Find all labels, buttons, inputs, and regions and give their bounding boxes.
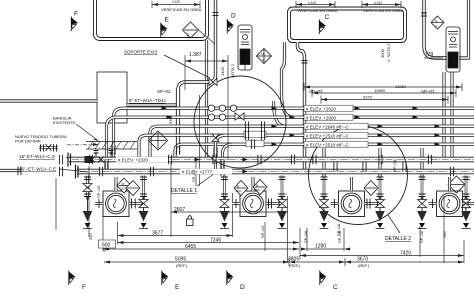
svg-text:600: 600 (102, 243, 111, 249)
svg-text:EXISTENTE: EXISTENTE (53, 120, 76, 125)
flange ticks on left row verticals (112, 145, 115, 155)
pipe row 2 ELEV +2000 with left elbow down (107, 117, 474, 170)
svg-text:¢ ELEV. +2777: ¢ ELEV. +2777 (182, 169, 212, 174)
svg-text:POR DEFINIR: POR DEFINIR (15, 139, 41, 144)
inline valve on row 2 (235, 113, 244, 120)
valve stand 3 (220, 176, 230, 229)
flanges on header 2777 (99, 167, 102, 177)
svg-text:346: 346 (442, 231, 447, 238)
instrument assembly 1 (top, with black body) (238, 25, 252, 70)
svg-text:202: 202 (236, 189, 241, 193)
pump box 4 (429, 177, 474, 217)
diamonds above pump 1 (117, 178, 131, 193)
flange on riser 215 (213, 13, 219, 16)
svg-text:N: N (435, 19, 437, 23)
valve V2 (139, 200, 148, 208)
pipe: riser from tank B left-bottom (282, 42, 285, 95)
leader detalle 1 (197, 168, 222, 186)
diamond tag right bottom (448, 176, 465, 193)
pipe: elbow into row 2 (282, 93, 294, 117)
svg-text:9375: 9375 (363, 95, 373, 100)
equipment box (left middle) (97, 72, 127, 123)
valve on vertical inside circle (212, 134, 219, 142)
svg-text:SP–03: SP–03 (96, 185, 101, 198)
flow arrows rows (162, 106, 168, 110)
svg-text:VERIFICAR EN OBRA: VERIFICAR EN OBRA (297, 8, 338, 13)
section flag bottom D (227, 271, 245, 292)
diamond tag left of rows (149, 131, 168, 150)
diamond tag top right (431, 16, 444, 29)
svg-text:¢ ELEV. +2000: ¢ ELEV. +2000 (306, 115, 336, 120)
detail circle 1 (194, 76, 286, 168)
svg-text:729: 729 (425, 52, 434, 58)
valve stand 6 (375, 176, 385, 229)
text elev 2777 (180, 169, 232, 174)
pipe: stand riser at x=422 (420, 148, 423, 177)
extension with SP-03 left (55, 178, 57, 230)
valve V4 (376, 200, 385, 208)
dim arrowheads verificar (152, 3, 401, 6)
pipe: tank A right edge riser down to header (205, 40, 208, 157)
pipe: stub from equipment box to riser (127, 103, 176, 106)
dim line 10890 (312, 89, 456, 97)
svg-text:SP–02: SP–02 (309, 89, 323, 94)
pipe: left edge stub (0, 169, 21, 172)
svg-text:F: F (82, 284, 86, 291)
valve stand 5 (319, 176, 329, 229)
svg-text:10890: 10890 (374, 88, 386, 93)
svg-text:2607: 2607 (174, 207, 185, 213)
dim line 3677 (118, 235, 233, 237)
svg-text:B: B (256, 184, 258, 188)
text 600 boxed (99, 240, 116, 249)
flange on riser 424 (421, 13, 427, 16)
svg-text:SP–03: SP–03 (191, 169, 196, 182)
dim line 13260 (304, 83, 462, 91)
svg-text:(REF.): (REF.) (289, 263, 301, 268)
svg-text:¢ ELEV +2510 #8″–C: ¢ ELEV +2510 #8″–C (306, 133, 350, 138)
dark valve body on header (85, 156, 94, 163)
dim line 7420 (300, 228, 464, 259)
detail circle 2 (309, 126, 408, 225)
diamonds above pump 3 (364, 181, 378, 196)
leader soporte exis (164, 55, 210, 78)
valve V6 (462, 200, 471, 208)
pipe: elbow into row 3 (274, 101, 286, 126)
pump box 2 (232, 177, 282, 217)
valve stand 7 (417, 176, 427, 229)
small lock icon (187, 216, 194, 226)
svg-text:3805: 3805 (288, 257, 299, 263)
dim line verificar C (362, 1, 401, 8)
svg-text:F: F (74, 11, 78, 18)
svg-text:8″ ET–W1A–TD4J: 8″ ET–W1A–TD4J (129, 98, 166, 103)
dim line 7245 (118, 242, 300, 244)
pipe row 3 ELEV +2640 with left elbow down (150, 126, 474, 157)
svg-text:¢ ELEV +2510 #8″–C: ¢ ELEV +2510 #8″–C (306, 142, 350, 147)
svg-text:4.120: 4.120 (172, 0, 180, 4)
dim line 1387 (185, 55, 228, 90)
equipment tank A outline (top-left, double line) (94, 0, 209, 41)
section flag top E (161, 17, 170, 38)
flange ticks on rows inside circle 1 (245, 121, 248, 131)
diamonds above pump 2 (234, 181, 248, 196)
section flag bottom F (69, 271, 87, 292)
row labels (304, 105, 353, 111)
svg-text:E: E (165, 17, 170, 24)
svg-text:(REF.): (REF.) (358, 263, 370, 268)
svg-text:C: C (325, 14, 330, 21)
svg-text:SP–0A: SP–0A (419, 230, 424, 243)
mini tags on rows in circle 1 (244, 131, 266, 138)
dim line 6455 (103, 248, 299, 250)
svg-text:SP–02: SP–02 (421, 89, 435, 94)
svg-text:7245: 7245 (210, 238, 221, 244)
extension line x=196 sp-03 (195, 162, 197, 186)
pipe: S-bend riser from tank B bottom down through rows (298, 42, 305, 171)
svg-text:SP–02: SP–02 (157, 89, 171, 94)
pipe row 4 ELEV +2510 with left elbow down (139, 135, 474, 157)
valve on stand 1 (83, 184, 92, 192)
pipe row 1 ELEV +2020 with left elbow down (114, 108, 474, 158)
leader 16in CS (66, 157, 69, 159)
svg-text:E: E (175, 284, 180, 291)
svg-text:B: B (122, 182, 124, 186)
svg-text:SP–04: SP–04 (260, 225, 265, 238)
svg-text:5095: 5095 (175, 257, 186, 263)
svg-text:350: 350 (88, 233, 93, 240)
dim line 9375 (321, 96, 448, 104)
dim 729 (424, 57, 443, 59)
valve on upper horizontal pipe (209, 79, 217, 86)
instrument assembly 2 (top right, with black body) (446, 27, 460, 72)
svg-text:D: D (240, 284, 245, 291)
header end flanges (68, 153, 78, 179)
svg-text:3677: 3677 (152, 231, 163, 237)
svg-text:VERIFICAR EN OBRA: VERIFICAR EN OBRA (363, 8, 404, 13)
valve stand 1 (83, 176, 93, 229)
pipe: 16in header ELEV +2320 (69, 157, 474, 163)
svg-text:SP–04: SP–04 (392, 159, 397, 172)
svg-text:16″–ET–W1A–C.E: 16″–ET–W1A–C.E (19, 167, 56, 172)
section flag bottom E (162, 271, 180, 292)
pipe: vertical riser from tank A right side down, elbow left, down to header (178, 0, 216, 154)
leader 16in CE (60, 169, 88, 172)
dim line 1280 (307, 248, 344, 250)
dim arrowheads (103, 3, 464, 264)
pipe: stand riser at x=324 (322, 148, 325, 177)
dim line verificar A (152, 1, 200, 8)
svg-text:SP–0A: SP–0A (303, 230, 308, 243)
flanges on header 2320 (89, 155, 92, 165)
svg-text:4.120: 4.120 (308, 1, 316, 5)
equipment tank B outline (top-centre, double line) (288, 7, 407, 43)
diamond tag (4-quadrant) near instrument 1 (257, 49, 272, 64)
flanges right half both headers (313, 155, 316, 165)
dim line REF row (104, 258, 464, 266)
svg-text:13260: 13260 (395, 84, 407, 89)
svg-text:C: C (333, 284, 338, 291)
flange circles on row 1 and 2 (208, 105, 236, 120)
svg-text:SOPORTE EXIS: SOPORTE EXIS (124, 50, 157, 55)
pipe: top right vertical with elbow to instrument (424, 0, 447, 58)
svg-text:D: D (231, 13, 236, 20)
extension lines bottom (88, 168, 90, 237)
svg-text:4.120: 4.120 (374, 1, 382, 5)
section flag bottom C (320, 271, 338, 292)
svg-text:11: 11 (187, 33, 190, 37)
svg-text:1280: 1280 (315, 244, 326, 250)
pipe row 5 ELEV +2510 with left elbow down (175, 144, 474, 157)
valve stand 2 (139, 176, 149, 229)
svg-text:16″ ET–W1A–C.S: 16″ ET–W1A–C.S (19, 154, 55, 159)
valve V5 (418, 200, 427, 208)
valve V2 (278, 200, 287, 208)
leader nuevo tendido (76, 124, 98, 141)
pump box 3 (331, 177, 381, 217)
pipe: stand riser at x=380 (378, 148, 381, 177)
section flag top F (71, 11, 78, 32)
svg-text:1.387: 1.387 (189, 52, 202, 58)
svg-text:(REF.): (REF.) (176, 263, 188, 268)
pipe: elbow down from row 5 inside detail circle (223, 144, 233, 170)
svg-text:VERIFICAR EN OBRA: VERIFICAR EN OBRA (161, 7, 202, 12)
cable tray hatched (bandeja existente) (86, 142, 137, 150)
pipe: left edge horizontal into equipment box (0, 99, 97, 102)
pump box 1 (95, 177, 145, 217)
svg-text:3365: 3365 (168, 114, 173, 124)
svg-text:3000: 3000 (380, 48, 385, 58)
section flag top C (319, 14, 329, 34)
svg-text:¢ ELEV. +2020: ¢ ELEV. +2020 (306, 106, 336, 111)
svg-text:DETALLE 2: DETALLE 2 (385, 236, 411, 242)
svg-text:DETALLE 1: DETALLE 1 (171, 188, 197, 194)
pipe: right risers from instrument down to headers (442, 72, 445, 158)
svg-text:V. NOTA 2: V. NOTA 2 (386, 43, 391, 62)
svg-text:¢ ELEV +2640 #8″–C: ¢ ELEV +2640 #8″–C (306, 124, 350, 129)
valve stand 8 (right edge) (461, 176, 471, 229)
svg-text:3670: 3670 (357, 257, 368, 263)
svg-text:SP–0A: SP–0A (336, 223, 341, 236)
svg-text:B: B (237, 185, 239, 189)
valve stand 4 (277, 176, 287, 229)
dim line 2607 (171, 211, 288, 213)
valve V3 (320, 200, 329, 208)
svg-text:6455: 6455 (185, 244, 196, 250)
pipe: top right edge vertical (459, 0, 469, 58)
svg-text:7420: 7420 (400, 251, 411, 257)
pipe: 16in header ELEV +2777 (77, 169, 474, 175)
dim line verificar B (296, 1, 335, 8)
flange on riser 304 (302, 61, 308, 64)
left mini assembly (18, 144, 58, 175)
svg-text:1400: 1400 (220, 66, 225, 76)
pipe: wider 8in riser segment (176, 88, 180, 154)
leader detalle 2 (388, 215, 400, 233)
svg-text:NOTA 2: NOTA 2 (230, 63, 235, 78)
extension x=89 upper (88, 166, 90, 178)
diamond tag top (N/11) (183, 22, 216, 44)
svg-text:¢ ELEV. +2320: ¢ ELEV. +2320 (118, 157, 148, 162)
pipe: elbow down from row 4 inside detail circle (216, 135, 226, 170)
svg-text:202: 202 (121, 187, 126, 191)
section flag top D (227, 13, 236, 34)
text elev 2320 (116, 157, 168, 162)
svg-text:11: 11 (261, 52, 264, 56)
svg-text:202: 202 (255, 188, 260, 192)
